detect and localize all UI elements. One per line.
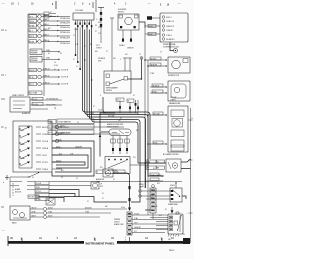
washer pump feed 1 <box>150 84 167 88</box>
paired drop connectors <box>135 100 139 115</box>
wiper motor feed 2 <box>148 63 167 67</box>
harness to S1 wire <box>145 209 153 211</box>
switch label row 7 <box>36 169 62 171</box>
strip S1 top circle <box>152 185 155 188</box>
svg-text:297 BK-LG H: 297 BK-LG H <box>60 32 71 34</box>
switch contact row 2 <box>19 134 30 139</box>
nested return wire 1 <box>52 141 94 176</box>
radio top row bend <box>64 197 127 203</box>
wiper motor circle <box>125 17 133 25</box>
heater cell 4 <box>171 140 184 147</box>
svg-text:21 W: 21 W <box>30 77 34 79</box>
wiper motor right terminal <box>183 59 188 63</box>
svg-text:511 GY H: 511 GY H <box>61 84 69 86</box>
wiper motor terminal TL <box>119 15 123 18</box>
resistor feed vertical <box>100 132 109 157</box>
switch assembly outer box <box>13 121 52 172</box>
stack wire 1 <box>49 181 182 183</box>
center drop 2 <box>119 101 121 113</box>
autolamp caption <box>13 183 21 196</box>
reference wire labels <box>46 98 58 106</box>
wiper motor terminal BL <box>120 26 122 28</box>
bus bar tick 1 <box>21 238 23 241</box>
svg-text:21 W-R: 21 W-R <box>42 134 48 136</box>
switch label row 2 <box>36 132 62 135</box>
cluster wire 2 <box>156 221 168 223</box>
nested return wire 2 <box>52 148 91 172</box>
instrument panel bus bar left <box>8 241 84 244</box>
wiper motor right box <box>168 57 190 73</box>
right bus tick 3 <box>189 212 193 214</box>
strip S1 cells <box>150 190 156 212</box>
switch inner body <box>19 126 32 168</box>
ash wire connector 2 <box>128 198 130 201</box>
wire bundle line 4 <box>89 30 140 203</box>
radio wire extension 2 <box>60 211 111 213</box>
wiper switch junction <box>141 78 142 79</box>
turn flasher box 1 <box>30 49 60 55</box>
cluster wire 3 <box>156 225 168 227</box>
cluster wire 1 <box>132 217 168 219</box>
in-line connector circle 1 <box>139 190 142 193</box>
ash lamp output wire <box>113 173 130 208</box>
nested return wire 4 <box>52 162 85 165</box>
accessory wire 2 <box>145 178 163 181</box>
in-line connector circle 2 <box>139 195 142 198</box>
wiper motor symbol box <box>118 14 139 30</box>
top tick mark 2 <box>92 2 94 8</box>
wiper motor terminal TR <box>135 15 139 18</box>
stack wire 5 <box>49 198 64 203</box>
heater cell bottom <box>171 145 184 151</box>
cluster notch <box>176 212 179 214</box>
right bus tick 2 <box>189 159 193 161</box>
governor terminal row 5 <box>162 34 172 37</box>
svg-text:19 LG-R: 19 LG-R <box>42 141 49 143</box>
fuse feed row 4 <box>29 29 71 34</box>
block A up lead <box>175 182 176 188</box>
fuse feed row 2 <box>29 19 71 24</box>
governor block body <box>160 13 188 42</box>
radio wire 1 <box>30 207 60 210</box>
switch label row 1 <box>36 125 62 128</box>
blower switch output <box>130 164 148 166</box>
heater cell 3 <box>171 130 184 137</box>
ash wire connector 1 <box>128 186 130 189</box>
blower switch terminals <box>108 159 128 161</box>
connector C101 pin 4 <box>82 20 84 27</box>
svg-text:INSTRUMENT PANEL: INSTRUMENT PANEL <box>86 242 115 246</box>
harness vertical 2 <box>147 60 149 215</box>
multifunction wire 1 <box>30 97 62 101</box>
wiper switch terminal 1 <box>106 74 110 78</box>
bus bar tick 3 <box>161 238 163 241</box>
svg-text:511 GY H: 511 GY H <box>61 77 69 79</box>
governor terminal row 6 <box>162 38 174 41</box>
heater input 1 junction <box>147 114 149 116</box>
cigar lead right 2 <box>181 168 191 170</box>
left vertical feed <box>9 177 11 198</box>
governor input wire 3 <box>145 32 160 36</box>
wiper switch drop 1 <box>124 58 126 71</box>
turn flasher box 2 <box>30 57 60 63</box>
center reference block <box>48 119 94 135</box>
lower label stack row 2 <box>35 186 49 190</box>
left margin ground mark <box>3 175 9 184</box>
collector down feed <box>100 113 106 131</box>
harness vertical 1 <box>144 28 146 188</box>
strip S1 drop <box>152 213 154 219</box>
lower label stack row 1 <box>35 182 49 186</box>
strip wire right 5 <box>132 231 165 233</box>
wiper switch body <box>104 71 131 93</box>
washer pump outer <box>168 81 190 101</box>
radio wire extension 3 <box>60 216 100 218</box>
connector circle near harness <box>140 57 143 60</box>
instrument cluster body <box>168 214 183 234</box>
switch row exit 2 <box>52 132 120 134</box>
connector C101 body <box>73 13 94 20</box>
radio wire top row <box>28 195 64 199</box>
heater cell 2 frame <box>172 119 183 128</box>
pin wire drop 3 <box>79 28 80 71</box>
strip S1 body <box>150 188 156 213</box>
switch contact row 5 <box>19 155 30 160</box>
fuse feed row 7 <box>29 68 69 72</box>
wire bundle line 3 <box>87 27 146 188</box>
ash lamp circle <box>106 171 111 176</box>
switch label row 3 <box>36 139 62 142</box>
resistor drop 2 <box>118 136 123 155</box>
governor ground connector <box>174 49 178 53</box>
left column top edge <box>28 13 44 15</box>
harness junction 1 <box>144 59 146 61</box>
left margin mark 10 <box>1 126 4 128</box>
wiper motor drop 1 <box>122 30 124 42</box>
svg-text:640 R-Y: 640 R-Y <box>30 70 37 72</box>
lower label stack row 4 <box>35 194 49 198</box>
radio box <box>10 206 30 220</box>
fuse feed row 9 <box>29 82 69 86</box>
radio wire 2 <box>30 211 60 214</box>
strip wire right 1 <box>132 213 168 215</box>
collector wire <box>103 112 138 114</box>
heater cell 1 <box>171 110 184 117</box>
radio inner mark <box>13 217 27 219</box>
svg-text:297 BK-LG H: 297 BK-LG H <box>60 18 71 20</box>
strip S1 caption <box>139 184 144 189</box>
wiper switch blade <box>110 79 125 84</box>
right bus tick 1 <box>189 119 193 121</box>
svg-text:14 BR H: 14 BR H <box>42 148 49 150</box>
cigar label box row 2 <box>146 166 165 170</box>
scatter labels group <box>32 19 185 239</box>
wiper switch drop tick <box>123 57 132 59</box>
switch label row 5 <box>36 155 62 157</box>
instrument panel bus bar right <box>117 241 190 244</box>
svg-text:640 R-Y: 640 R-Y <box>42 127 49 129</box>
wiper switch terminal 2 <box>106 82 110 86</box>
strip text block <box>114 219 123 226</box>
antenna trimmer box <box>46 198 55 205</box>
top tick mark 1 <box>55 1 57 9</box>
switch inner marks <box>21 130 25 160</box>
block A cells <box>171 190 174 200</box>
ash wire label box <box>114 170 125 173</box>
panel illumination lamp <box>91 182 99 189</box>
connector C101 pin 3 <box>79 20 81 25</box>
svg-text:511 GY H: 511 GY H <box>61 70 69 72</box>
drop label box 3 <box>127 99 134 102</box>
lower label stack row 5 <box>35 198 49 202</box>
ash lamp body <box>103 169 113 177</box>
left label row <box>29 91 42 95</box>
governor input blob <box>147 16 160 20</box>
collector drop 1 <box>103 97 115 113</box>
cigar lighter body <box>166 159 181 172</box>
stack feed lines <box>10 182 35 190</box>
bundle junction dot 2 <box>91 79 92 80</box>
strip bottom tick <box>129 237 131 242</box>
left margin mark H <box>1 29 4 31</box>
switch contact row 4 <box>19 148 30 153</box>
svg-text:297 BK-LG H: 297 BK-LG H <box>60 43 71 45</box>
block A blade <box>172 190 180 197</box>
washer pump feed 2 <box>150 90 167 94</box>
fuse feed row 1 <box>29 15 71 20</box>
multifunction box <box>10 97 30 112</box>
left bus rail A <box>27 14 29 96</box>
bundle junction dot <box>84 59 85 60</box>
blower resistor body <box>109 129 131 136</box>
radio wire extension 1 <box>60 207 127 209</box>
resistor feed arrow <box>99 134 102 137</box>
block A input wires <box>142 189 171 199</box>
bottom strip cells <box>127 213 132 235</box>
accessory wire 1 <box>148 173 164 177</box>
strip wire right 2 <box>132 218 168 220</box>
wire bundle line 5 <box>92 27 166 163</box>
blower switch body <box>105 157 130 174</box>
svg-text:2881-F: 2881-F <box>169 250 174 252</box>
connector C101 pin 1 <box>75 20 77 25</box>
block A dot <box>179 196 180 197</box>
heater input 1 <box>148 112 167 116</box>
center drop 3 <box>129 102 131 113</box>
top pair mini rows <box>44 12 56 18</box>
blower switch blade <box>108 161 126 169</box>
top margin reference marks <box>2 2 181 7</box>
in-line connector stack <box>98 8 104 44</box>
wiper switch contact <box>124 77 128 81</box>
switch label row 4 <box>36 148 62 150</box>
nested return wire 3 <box>52 155 88 168</box>
wiper motor right circle <box>172 60 181 69</box>
cigar label box row 1 <box>146 160 165 164</box>
resistor drop 1 <box>111 136 116 155</box>
wiper switch drop 2 <box>129 58 131 71</box>
fuse feed row 6 <box>29 40 71 45</box>
switch row exit 1 <box>52 125 124 127</box>
wiper motor feed 1 <box>145 57 167 61</box>
ash wire down arrow <box>128 208 131 212</box>
bus bar tick 2 <box>94 238 96 241</box>
blower switch output dot <box>147 164 148 165</box>
svg-text:977 P-O: 977 P-O <box>42 162 49 164</box>
wiper motor drop 2 <box>130 30 132 42</box>
fuse feed row 3 <box>29 24 71 29</box>
svg-text:54 LG: 54 LG <box>30 21 35 23</box>
wiper motor terminal BR <box>134 26 136 28</box>
svg-text:297 BK-LG H: 297 BK-LG H <box>60 38 71 40</box>
fuse feed row 8 <box>29 75 69 79</box>
wire bundle line 1 <box>82 27 150 159</box>
connector C101 pin 5 <box>84 20 86 25</box>
cluster wire 4 <box>156 229 168 231</box>
ash lamp label box <box>96 170 103 174</box>
harness junction 2 <box>147 65 149 67</box>
governor terminal row 4 <box>162 29 173 32</box>
svg-text:4: 4 <box>3 182 4 184</box>
governor terminal row 1 <box>162 16 172 19</box>
lower label stack row 3 <box>35 190 49 194</box>
heater motor circle <box>174 120 181 127</box>
pin wire drop 1 <box>75 28 76 57</box>
strip wire right 3 <box>132 222 168 224</box>
stack wire 4 <box>49 194 75 198</box>
radio margin mark <box>1 206 4 208</box>
cigar lighter inner mark <box>168 162 171 169</box>
left bus rail B <box>43 14 45 96</box>
multifunction wire 2 <box>30 102 62 106</box>
bus bar right end block <box>183 238 190 244</box>
nested wire labels <box>56 139 82 162</box>
bus bar labels <box>2 230 174 241</box>
cluster inner cells <box>169 216 180 232</box>
block A body <box>170 188 182 202</box>
cigar lead right 1 <box>181 159 191 162</box>
svg-text:57 BK H: 57 BK H <box>42 169 49 171</box>
left margin mark 3 <box>1 98 5 100</box>
multifunction internal lines <box>13 101 25 109</box>
wiper motor right lead <box>139 22 145 28</box>
radio circle 1 <box>13 210 18 215</box>
governor terminal row 3 <box>162 25 174 28</box>
svg-text:297 BK-LG H: 297 BK-LG H <box>60 27 71 29</box>
governor input wire 2 <box>145 24 160 28</box>
switch lower contact row <box>10 172 39 178</box>
wiper motor long drop <box>111 18 113 71</box>
stack wire 3 <box>49 190 79 198</box>
switch contact row 1 <box>19 127 30 132</box>
left margin mark 1 <box>1 74 4 76</box>
connector C101 pin 2 <box>77 20 79 27</box>
switch contact row 3 <box>19 141 30 146</box>
strip wire right 4 <box>132 227 168 229</box>
cluster feed arrow <box>171 207 174 214</box>
wire bundle line 2 <box>85 30 163 177</box>
resistor inner marks <box>112 131 129 135</box>
connector C101 pin 8 <box>91 20 93 27</box>
stack wire 2 <box>49 185 91 187</box>
multifunction wire 3 <box>30 108 48 110</box>
fuse feed row 5 <box>29 34 71 39</box>
radio circle 2 <box>20 213 25 218</box>
right margin bus <box>190 108 192 243</box>
governor ground lead <box>170 42 174 51</box>
connector C101 pin 6 <box>86 20 88 27</box>
heater input 2 <box>147 141 167 145</box>
cluster blade <box>178 216 181 229</box>
pin wire drop 2 <box>77 28 78 64</box>
heater control box <box>168 106 188 152</box>
bottom strip body <box>127 212 132 235</box>
cluster dots <box>177 215 182 231</box>
drop label box 2 <box>116 98 124 101</box>
connector C101 pin 7 <box>89 20 91 25</box>
cluster hatch marks <box>168 234 179 237</box>
governor terminal row 2 <box>162 20 174 23</box>
top tick mark 3 <box>95 0 97 12</box>
radio wire 3 <box>30 215 60 218</box>
switch label row 6 <box>36 162 62 164</box>
resistor drop 3 <box>125 136 130 155</box>
cigar lighter circle <box>172 163 178 169</box>
washer pump circle <box>174 87 180 93</box>
wiper motor long drop tick <box>110 17 114 19</box>
bottom bar left tick <box>7 236 9 246</box>
wiper switch output wire <box>128 60 142 80</box>
harness junction 3 <box>144 162 146 164</box>
svg-text:297 BK-LG H: 297 BK-LG H <box>60 23 71 25</box>
switch contact row 6 <box>19 162 30 167</box>
block A right lead <box>182 196 186 199</box>
washer pump inner <box>171 84 186 98</box>
